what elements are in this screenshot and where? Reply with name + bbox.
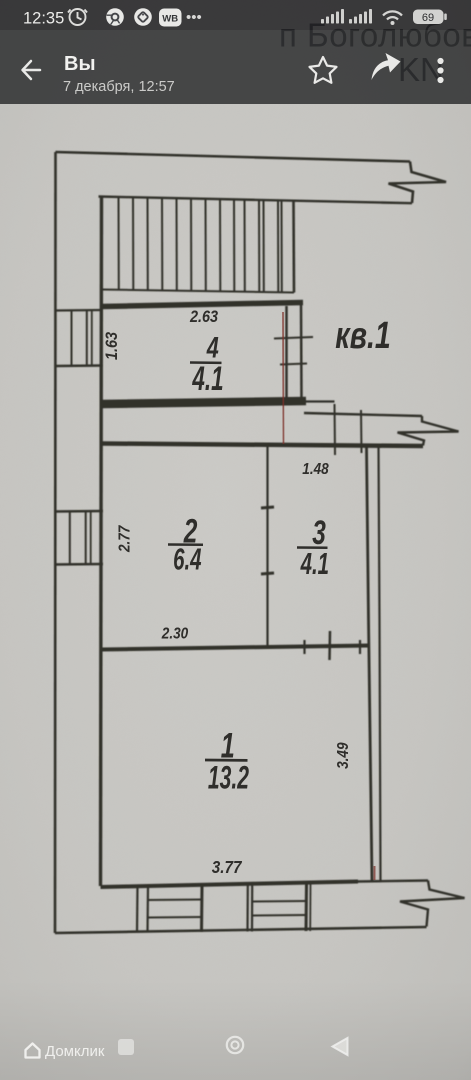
bottom band top line: [358, 881, 428, 882]
svg-text:13.2: 13.2: [208, 759, 249, 796]
door tick b: [328, 631, 331, 660]
back arrow: [23, 61, 41, 79]
svg-text:4: 4: [206, 330, 219, 364]
svg-text:•••: •••: [186, 9, 202, 26]
room 4 right wall outer: [300, 303, 303, 400]
nav circle: [227, 1037, 243, 1053]
nav triangle: [333, 1038, 348, 1055]
svg-text:12:35: 12:35: [23, 10, 64, 28]
dimension and room labels: [103, 308, 391, 877]
svg-text:WB: WB: [162, 14, 178, 25]
svg-text:4.1: 4.1: [300, 546, 329, 581]
svg-text:2.30: 2.30: [161, 625, 189, 642]
svg-text:4.1: 4.1: [192, 360, 224, 398]
svg-text:7 декабря, 12:57: 7 декабря, 12:57: [63, 79, 175, 95]
partition rooms 2-3: [266, 447, 268, 645]
door tick c: [359, 640, 361, 654]
room 1 bottom wall: [101, 882, 359, 888]
room 4 fraction bar: [190, 361, 222, 364]
right wall outer: [379, 447, 381, 881]
fraction bars: [168, 363, 328, 761]
chrome icon: [106, 8, 124, 26]
right wall inner: [367, 447, 373, 881]
left window 2: [55, 510, 104, 513]
battery: [413, 10, 447, 25]
dim tick 1.48 right: [360, 410, 363, 453]
wifi icon: [383, 11, 402, 19]
app header: [0, 30, 471, 104]
top wall break symbol: [389, 162, 447, 204]
Domclick watermark: [26, 1043, 105, 1060]
middle band top line: [304, 413, 422, 416]
svg-text:3.49: 3.49: [335, 742, 352, 769]
app circle icon: [134, 8, 152, 26]
svg-text:Домклик: Домклик: [45, 1043, 105, 1060]
rooms 2-3 bottom wall: [101, 646, 370, 650]
partition tick lower: [261, 573, 274, 574]
svg-text:6.4: 6.4: [173, 541, 202, 576]
wire top outer wall: [56, 152, 411, 162]
wire stair right edge: [292, 201, 295, 293]
middle band break symbol: [398, 416, 459, 446]
room 2 fraction bar: [168, 543, 203, 546]
bottom band verticals: [136, 886, 139, 933]
red marks: [283, 312, 375, 880]
door tick a: [303, 640, 305, 654]
left window 1: [56, 309, 104, 312]
room 1 fraction bar: [205, 759, 248, 762]
nav square: [118, 1039, 134, 1055]
star icon: [310, 57, 337, 83]
svg-text:кв.1: кв.1: [335, 315, 390, 357]
rooms 2-3 top wall: [102, 444, 423, 447]
room 4 door tick B: [280, 364, 307, 365]
status bar: [0, 0, 471, 30]
menu dots: [437, 58, 443, 83]
room 4 bottom wall: [102, 401, 306, 404]
svg-text:2.77: 2.77: [117, 525, 134, 553]
share icon: [372, 53, 401, 80]
staircase: [119, 197, 282, 292]
svg-text:1.48: 1.48: [302, 461, 329, 478]
room 4 door tick A: [274, 337, 313, 339]
svg-text:69: 69: [422, 12, 434, 24]
svg-text:2.63: 2.63: [189, 308, 218, 326]
wire left outer wall: [54, 152, 57, 933]
window block B lines: [252, 900, 306, 903]
WB icon: [159, 9, 182, 27]
room 4 right wall inner: [285, 306, 288, 400]
wire top band inner line: [99, 197, 413, 204]
room 3 fraction bar: [297, 546, 328, 549]
svg-text:Вы: Вы: [64, 53, 96, 75]
window block A lines: [148, 899, 202, 902]
dim tick 1.48 left: [334, 404, 337, 455]
partition tick upper: [261, 507, 274, 508]
bottom outer wall: [55, 927, 427, 933]
alarm icon: [68, 9, 87, 25]
room 4 bottom wall thin continuation: [306, 400, 335, 402]
signal bars 1: [321, 9, 344, 24]
svg-text:3.77: 3.77: [212, 857, 242, 877]
signal bars 2: [349, 9, 372, 24]
bottom wall break symbol: [400, 881, 465, 927]
room 4 top wall: [102, 303, 303, 307]
svg-text:1.63: 1.63: [103, 332, 121, 360]
wire interior left wall: [101, 197, 102, 887]
wire stairs bottom: [102, 290, 295, 293]
